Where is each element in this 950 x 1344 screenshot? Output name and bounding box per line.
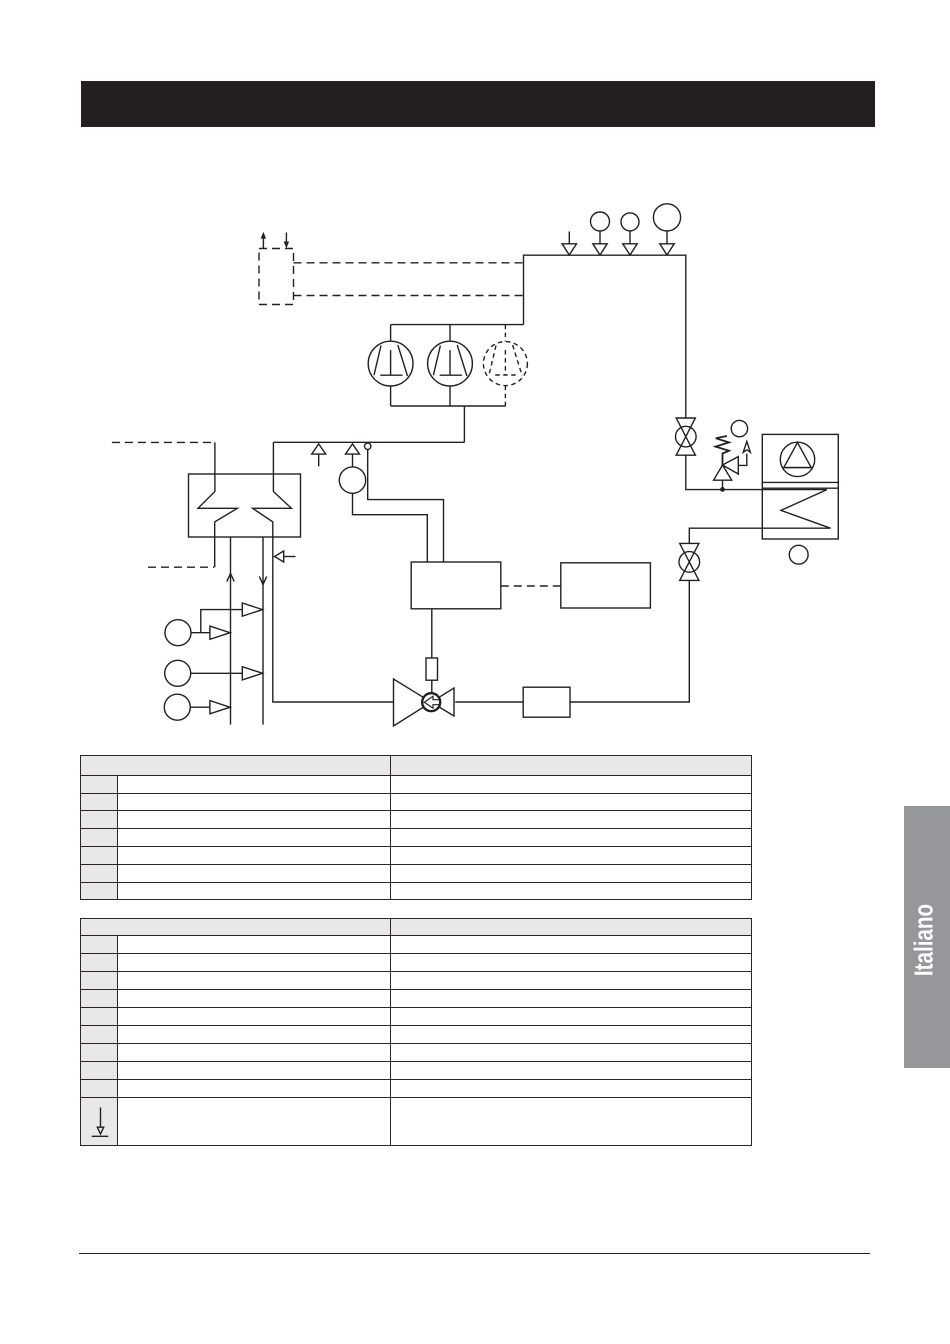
actuator stem: [431, 609, 433, 658]
sensor node: [365, 443, 371, 449]
pipe valve V2 to tank coil: [686, 455, 831, 543]
legend table 2: [80, 918, 752, 1146]
header bar: [81, 81, 875, 127]
compressor C2: [428, 325, 473, 406]
safety valve stem: [722, 480, 724, 489]
storage tank body: [762, 434, 838, 539]
refrigerant line liquid (dashed): [294, 295, 524, 297]
indoor unit box (dashed): [259, 249, 294, 305]
compressor discharge manifold: [391, 405, 506, 407]
top discharge pipe: [524, 255, 686, 418]
safety valve discharge: [738, 442, 750, 466]
bypass pipe right of valve: [455, 701, 523, 703]
primary circuit dashed line top: [112, 441, 214, 443]
air-out arrow: [261, 232, 266, 249]
three-way valve right port: [431, 688, 454, 716]
compressor C3 optional (dashed): [483, 325, 527, 406]
shut-off valve V2: [679, 543, 700, 580]
pressure gauge 4: [653, 204, 680, 255]
return pipe to tank valve: [570, 580, 689, 702]
three-way valve flow arrow: [424, 696, 440, 708]
safety valve cap circle: [731, 420, 747, 436]
control wire B: [353, 493, 428, 562]
three-way valve left port: [394, 679, 432, 726]
sensor S1: [165, 620, 230, 646]
pressure gauge 3: [621, 213, 639, 255]
water inlet stub with down arrow: [259, 537, 266, 725]
primary circuit dashed line bottom: [148, 566, 214, 568]
controller box: [411, 562, 501, 609]
tank drain port: [789, 545, 808, 564]
Italiano side tab: [904, 806, 950, 1068]
drop from compressors to liquid line: [463, 406, 465, 442]
legend table 1: [80, 755, 752, 901]
flow direction arrow: [312, 444, 326, 466]
safety valve body: [714, 457, 739, 481]
safety valve spring: [716, 436, 730, 465]
primary circuit path in exchanger: [198, 442, 237, 567]
table symbol: drain arrow: [92, 1108, 109, 1137]
flow switch pointer: [275, 551, 296, 562]
air-in arrow: [284, 233, 289, 249]
serial link (dashed): [501, 585, 561, 587]
three-way valve body circle: [422, 693, 440, 711]
valve actuator body: [426, 658, 438, 680]
water outlet stub with up arrow: [227, 537, 234, 725]
remote panel box: [561, 563, 651, 608]
sensor S2: [165, 660, 263, 686]
liquid header pipe: [273, 441, 464, 443]
compressor suction manifold: [391, 324, 524, 326]
filter box on return: [523, 687, 570, 717]
junction node: [720, 487, 725, 492]
control wire A: [368, 450, 444, 563]
tank pump: [780, 442, 814, 476]
temperature sensor T1 pointer: [346, 444, 360, 467]
sensor S1 branch to return pipe: [201, 603, 263, 633]
temperature sensor T1 bulb: [339, 467, 365, 493]
actuator to valve stem: [431, 680, 433, 693]
pressure gauge 2: [591, 212, 610, 255]
footer rule: [79, 1253, 870, 1255]
charge port 1: [562, 232, 576, 256]
plate heat exchanger body: [189, 474, 301, 537]
compressor C1: [368, 325, 413, 406]
refrigerant line gas (dashed): [294, 262, 524, 264]
secondary circuit path through exchanger to mixing valve: [253, 442, 394, 702]
sensor S3: [164, 694, 230, 720]
tank divider double line: [762, 482, 838, 488]
shut-off valve V1: [676, 418, 697, 455]
